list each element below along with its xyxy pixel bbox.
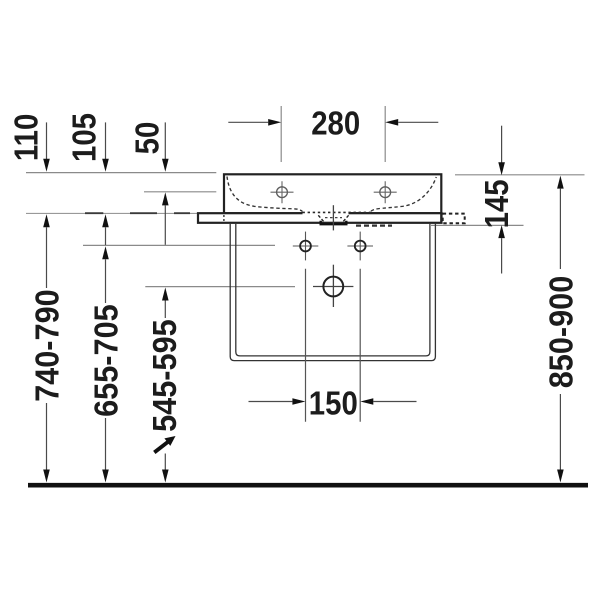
dimension 655-705 upper arrowhead (up, at deck) xyxy=(102,214,109,227)
dimension 545-595 arrowhead at line D (up) xyxy=(162,288,169,301)
svg-text:545-595: 545-595 xyxy=(146,319,183,432)
dimension 110 down arrowhead xyxy=(43,159,50,172)
svg-text:145: 145 xyxy=(478,179,515,228)
basin inner bowl dashed curve xyxy=(227,177,303,212)
console frame inner xyxy=(236,223,430,356)
svg-text:850-900: 850-900 xyxy=(542,276,579,389)
drain trapezoid left dash xyxy=(318,215,323,221)
right mounting hole xyxy=(355,241,366,252)
svg-text:740-790: 740-790 xyxy=(28,289,65,402)
dimension 655-705 line lower segment xyxy=(105,418,107,470)
left mounting hole extension line down xyxy=(305,269,307,422)
console frame outer xyxy=(230,223,435,361)
adjustability arrow (NE) shaft xyxy=(154,442,168,452)
dimension 740-790 floor arrowhead (down) xyxy=(43,470,50,483)
basin inner bowl dashed curve right branch xyxy=(371,177,436,211)
extension line tap-hole height (50 line) xyxy=(144,191,216,193)
extension line rim-top right xyxy=(455,174,585,176)
drain trapezoid right dash xyxy=(343,215,348,221)
dimension 655-705 connector line xyxy=(105,227,107,245)
drain inner dashes xyxy=(325,217,342,219)
dimension 740-790 upper arrowhead (up, at line B) xyxy=(43,214,50,227)
drain clamp bracket xyxy=(321,221,347,224)
right tap hole xyxy=(380,187,391,198)
dimension 850-900 floor arrowhead (down) xyxy=(557,470,564,483)
extension line drain (line D) xyxy=(145,286,295,288)
drain horizontal cross xyxy=(313,286,353,288)
dimension 280 right line xyxy=(398,121,438,123)
dimension 280 left line xyxy=(228,121,268,123)
svg-text:50: 50 xyxy=(129,122,166,155)
dimension 655-705 arrowhead at line C (up) xyxy=(102,246,109,259)
dimension 150 left arrowhead xyxy=(292,398,305,405)
svg-text:105: 105 xyxy=(66,113,103,162)
right mounting hole vertical cross xyxy=(359,232,361,261)
left tap hole cross xyxy=(271,181,294,203)
dimension 850-900 upper arrowhead (up) xyxy=(557,176,564,189)
right tap hole cross xyxy=(374,181,397,203)
basin right edge through deck xyxy=(440,213,442,223)
dimension 280 right arrowhead xyxy=(385,119,398,126)
dimension 545-595 line lower segment xyxy=(164,454,166,471)
extension line deck-top dashed (line B) xyxy=(26,212,197,214)
dark dashes on line B xyxy=(85,212,190,214)
dimension 145 lower arrowhead (up) xyxy=(498,225,505,238)
adjustability arrow (NE) head xyxy=(164,436,175,446)
dimension 150 right line xyxy=(373,401,416,403)
drain hole xyxy=(323,277,343,297)
dimension 150 right arrowhead xyxy=(360,398,373,405)
floor line xyxy=(28,483,588,488)
svg-text:110: 110 xyxy=(8,114,45,161)
deck line gap at drain xyxy=(303,212,349,216)
mounting deck slab xyxy=(198,213,442,223)
dimension 145 down arrowhead xyxy=(498,162,505,175)
extension line rim-top left xyxy=(26,172,216,174)
drain centerline lower segment xyxy=(332,265,334,307)
extension line mounting holes (line C) xyxy=(83,244,275,246)
bowl curve dotted segment over drain xyxy=(303,211,372,213)
svg-text:280: 280 xyxy=(311,105,360,142)
left mounting hole horizontal cross xyxy=(293,245,319,247)
washbasin body xyxy=(224,174,441,213)
svg-text:655-705: 655-705 xyxy=(87,304,124,417)
left mounting hole xyxy=(300,241,311,252)
dimension 145 lower line xyxy=(501,238,503,273)
dimension 740-790 line upper segment xyxy=(46,227,48,288)
extension line 145 lower right xyxy=(431,224,524,226)
left mounting hole vertical cross xyxy=(305,232,307,261)
basin left edge hidden continuation xyxy=(223,215,225,223)
dimension 545-595 line upper segment xyxy=(164,301,166,319)
svg-text:150: 150 xyxy=(309,385,358,422)
dimension 850-900 line upper segment xyxy=(559,189,561,269)
optional cover dashed rectangle xyxy=(443,214,465,224)
dimension 145 upper line xyxy=(501,126,503,163)
drain centerline upper segment xyxy=(332,205,334,230)
dimension 850-900 line lower segment xyxy=(559,394,561,470)
right mounting hole extension line down xyxy=(359,269,361,422)
dimension 110 upper line xyxy=(46,122,48,159)
hidden siphon dashed heavy line xyxy=(356,225,392,227)
right mounting hole horizontal cross xyxy=(347,245,373,247)
dimension 545-595 floor arrowhead (down) xyxy=(162,470,169,483)
left tap hole xyxy=(277,187,288,198)
dimension 740-790 line lower segment xyxy=(46,403,48,470)
dimension 655-705 line upper segment xyxy=(105,259,107,303)
dimension 280 left arrowhead xyxy=(268,119,281,126)
dimension 105 down arrowhead xyxy=(102,159,109,172)
dimension 655-705 floor arrowhead (down) xyxy=(102,470,109,483)
dimension 50 lower arrowhead (up) xyxy=(162,192,169,205)
dimension 150 left line xyxy=(249,401,293,403)
dimension 50 upper line xyxy=(164,122,166,159)
dimension 50 lower line xyxy=(164,205,166,244)
extension line above left tap hole xyxy=(280,106,282,162)
dimension 50 down arrowhead xyxy=(162,159,169,172)
extension line above right tap hole xyxy=(384,106,386,162)
dimension 105 upper line xyxy=(105,122,107,159)
